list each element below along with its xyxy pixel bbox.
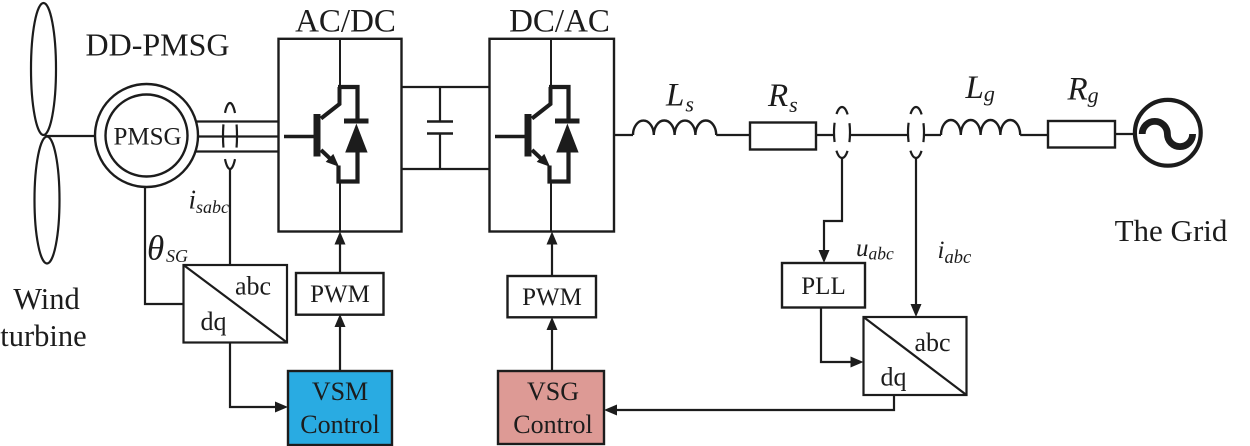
voltage sensor CT2 (dashed ellipse): [834, 107, 850, 158]
resistor Rs: [750, 123, 816, 150]
transistor Q1 emitter stroke: [321, 150, 334, 162]
svg-text:dq: dq: [881, 363, 907, 392]
svg-text:PWM: PWM: [522, 284, 582, 311]
transistor Q1 collector stroke: [321, 87, 340, 119]
wire Q1 collector-diode cathode link: [338, 87, 358, 119]
wire abc/dq1 to VSM Control with arrow: [230, 343, 283, 408]
capacitor C1 bottom plate: [427, 132, 453, 135]
wire theta from PMSG to abc/dq: [145, 186, 184, 304]
transform block abc/dq 2: [864, 317, 967, 395]
svg-text:Rg: Rg: [1067, 72, 1099, 108]
transform block abc/dq 1: [184, 265, 288, 343]
block PLL: [782, 263, 865, 308]
svg-text:PWM: PWM: [310, 281, 370, 308]
wire DC bus top: [402, 86, 490, 88]
wire Lg to Rg: [1020, 134, 1048, 136]
svg-text:θ: θ: [147, 229, 164, 268]
svg-text:Lg: Lg: [965, 70, 995, 106]
inductor Lg: [941, 120, 1020, 135]
svg-text:SG: SG: [166, 246, 188, 266]
diode D1 cathode bar: [344, 119, 369, 124]
svg-text:PLL: PLL: [801, 273, 845, 300]
wire C1 bottom lead: [439, 134, 441, 170]
AC source sine symbol: [1142, 121, 1192, 146]
svg-text:dq: dq: [201, 307, 227, 336]
inductor Ls: [633, 121, 716, 136]
wire VSM to PWM1 with arrow: [339, 319, 341, 371]
transform block 1 diagonal: [184, 265, 288, 343]
wire 3-phase c: [195, 150, 279, 152]
svg-text:VSM: VSM: [312, 377, 368, 406]
wire Q1 emitter lead: [339, 180, 341, 232]
generator PMSG inner circle: [106, 95, 188, 177]
transform block 2 diagonal: [864, 317, 967, 395]
converter DC/AC box: [490, 39, 615, 232]
svg-text:AC/DC: AC/DC: [295, 4, 396, 40]
wire Rg to grid: [1115, 133, 1133, 135]
transistor Q1 IGBT with anti-parallel diode (AC/DC): [284, 39, 369, 232]
wire abc/dq2 to VSG Control with arrow: [609, 395, 894, 410]
svg-text:VSG: VSG: [527, 377, 579, 406]
wire PLL to abc/dq2 with arrow: [821, 308, 858, 363]
block VSM Control: [288, 371, 392, 445]
svg-text:isabc: isabc: [189, 185, 230, 218]
capacitor C1 DC-link: [427, 87, 453, 169]
wire DC/AC output: [614, 134, 633, 136]
svg-text:Ls: Ls: [665, 78, 694, 117]
wire i_sabc measurement drop: [229, 169, 231, 265]
transistor Q1 gate bar: [314, 114, 321, 157]
wind turbine blade bottom: [35, 137, 60, 264]
svg-text:uabc: uabc: [856, 235, 894, 264]
block VSG Control: [498, 371, 604, 444]
wire Ls to Rs: [716, 134, 750, 136]
wire D1 anode-emitter link: [339, 152, 358, 182]
svg-text:Rs: Rs: [767, 78, 798, 117]
wire Q1 gate lead: [284, 135, 314, 139]
transistor Q1 emitter arrowhead: [326, 154, 339, 167]
wire CT3 to Lg: [925, 134, 942, 136]
svg-text:turbine: turbine: [0, 319, 86, 353]
current sensor CT1 (stator, dashed ellipse): [223, 103, 237, 169]
wire 3-phase b: [197, 135, 279, 137]
svg-text:abc: abc: [915, 328, 951, 357]
svg-text:PMSG: PMSG: [113, 124, 181, 151]
AC source: grid circle: [1135, 100, 1201, 166]
wire PWM2 to DC/AC with arrow: [551, 236, 553, 276]
diode D1 triangle: [345, 124, 367, 153]
resistor Rg: [1048, 121, 1115, 148]
block PWM 2: [508, 276, 597, 317]
svg-text:DC/AC: DC/AC: [509, 4, 610, 40]
transistor Q2 IGBT with anti-parallel diode D2 (DC/AC): [495, 39, 580, 232]
wire 3-phase a: [195, 120, 279, 122]
wire C1 top lead: [439, 87, 441, 122]
svg-text:iabc: iabc: [938, 237, 972, 268]
wind turbine blade top: [31, 3, 56, 135]
svg-text:Control: Control: [300, 410, 379, 439]
svg-text:abc: abc: [235, 272, 271, 301]
svg-text:The Grid: The Grid: [1115, 213, 1228, 248]
svg-text:Control: Control: [513, 410, 592, 439]
block PWM 1: [296, 273, 384, 315]
generator PMSG outer circle: [95, 84, 198, 187]
wire CT3 to abc/dq2 with arrow: [915, 158, 917, 312]
wire CT2 to CT3: [851, 134, 909, 136]
svg-text:DD-PMSG: DD-PMSG: [85, 27, 229, 63]
shaft wire hub to PMSG: [45, 135, 96, 137]
wire Rs to CT2: [816, 134, 834, 136]
converter AC/DC box: [279, 39, 402, 232]
wire PWM1 to AC/DC with arrow: [339, 236, 341, 273]
wire CT2 to PLL with arrow: [824, 158, 842, 258]
current sensor CT3 (dashed ellipse): [908, 107, 924, 158]
wire DC bus bottom: [402, 168, 490, 170]
wire Q1 collector lead: [339, 39, 341, 88]
svg-text:Wind: Wind: [13, 282, 80, 316]
wire VSG to PWM2 with arrow: [551, 322, 553, 371]
capacitor C1 top plate: [427, 120, 453, 123]
